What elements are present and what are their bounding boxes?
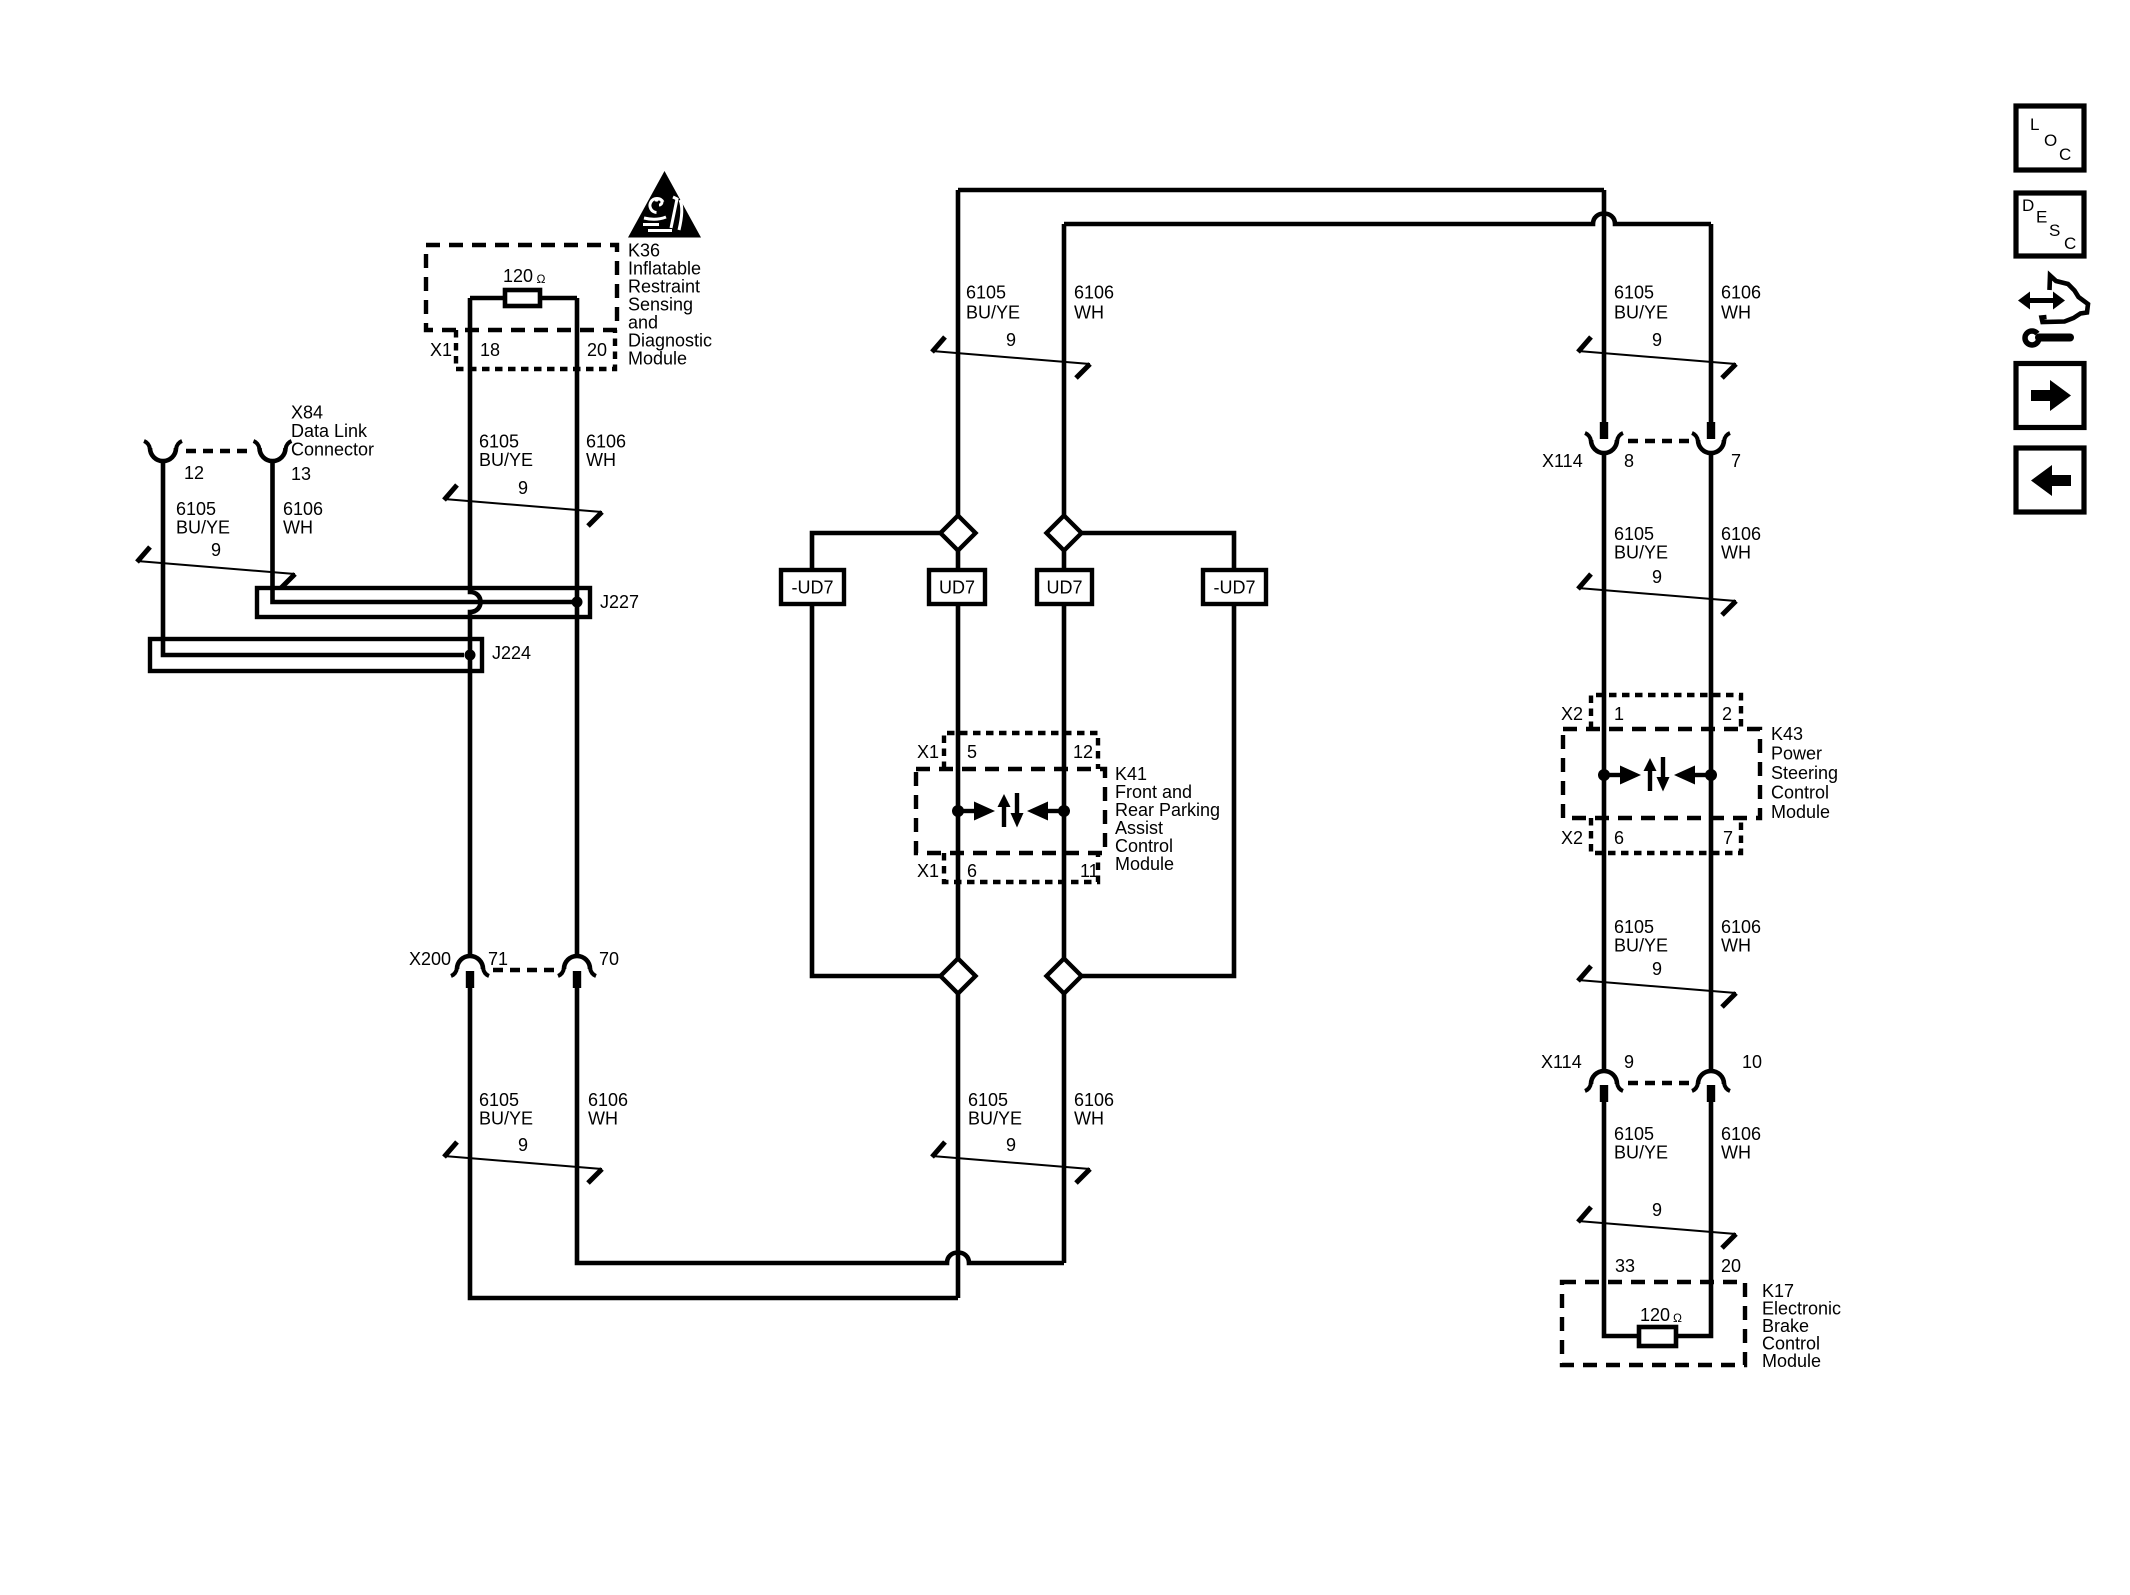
- svg-text:X2: X2: [1561, 704, 1583, 724]
- option diamond top right on 6106: [1047, 516, 1082, 551]
- svg-text:Assist: Assist: [1115, 818, 1163, 838]
- svg-text:BU/YE: BU/YE: [1614, 303, 1668, 323]
- splice pack J227 box: [257, 588, 590, 617]
- svg-text:Rear Parking: Rear Parking: [1115, 800, 1220, 820]
- wire X84 pin13 to J227: [273, 463, 573, 602]
- twisted pair slash middle top: [932, 337, 1090, 378]
- svg-text:6105: 6105: [176, 499, 216, 519]
- svg-text:6106: 6106: [1721, 1124, 1761, 1144]
- X114 male terminal 8: [1600, 422, 1608, 439]
- svg-text:9: 9: [518, 1135, 528, 1155]
- svg-text:9: 9: [518, 478, 528, 498]
- svg-text:O: O: [2044, 131, 2057, 150]
- svg-text:9: 9: [1652, 959, 1662, 979]
- svg-text:X1: X1: [430, 340, 452, 360]
- wire 6106 right vertical upper: [1709, 224, 1714, 424]
- svg-text:6105: 6105: [479, 1090, 519, 1110]
- X114 female terminal 9: [1591, 1071, 1617, 1084]
- previous page navigation box (left arrow): [2016, 448, 2084, 512]
- svg-text:9: 9: [1652, 330, 1662, 350]
- svg-text:WH: WH: [1721, 303, 1751, 323]
- svg-text:6106: 6106: [588, 1090, 628, 1110]
- svg-text:Restraint: Restraint: [628, 277, 700, 297]
- svg-text:9: 9: [1652, 1200, 1662, 1220]
- svg-text:6: 6: [1614, 828, 1624, 848]
- svg-text:C: C: [2059, 145, 2071, 164]
- svg-text:6106: 6106: [1721, 917, 1761, 937]
- option diamond top left on 6105: [941, 516, 976, 551]
- svg-text:6: 6: [967, 861, 977, 881]
- twisted pair slash middle bottom: [932, 1142, 1090, 1183]
- svg-text:6105: 6105: [1614, 524, 1654, 544]
- K43 internal node dot on 6106: [1705, 769, 1717, 781]
- svg-text:Data Link: Data Link: [291, 421, 368, 441]
- svg-text:9: 9: [1006, 1135, 1016, 1155]
- svg-text:C: C: [2064, 234, 2076, 253]
- svg-text:18: 18: [480, 340, 500, 360]
- svg-text:X1: X1: [917, 742, 939, 762]
- svg-text:E: E: [2036, 208, 2047, 227]
- svg-text:-UD7: -UD7: [1213, 578, 1255, 598]
- wire -UD7 left branch: [812, 533, 941, 976]
- svg-text:BU/YE: BU/YE: [176, 518, 230, 538]
- wire 6105 BU/YE vertical from K36 pin 18 (with hop over J227 splice wire): [470, 298, 481, 957]
- wire 6105 middle vertical (CAN High trunk): [956, 190, 961, 1298]
- svg-text:WH: WH: [1721, 1143, 1751, 1163]
- svg-text:Module: Module: [1115, 854, 1174, 874]
- svg-text:Steering: Steering: [1771, 763, 1838, 783]
- option label box UD7 (right centre): [1037, 570, 1092, 604]
- svg-text:WH: WH: [1721, 936, 1751, 956]
- svg-text:120: 120: [503, 266, 533, 286]
- svg-text:1: 1: [1614, 704, 1624, 724]
- svg-text:and: and: [628, 313, 658, 333]
- option label box -UD7 (left): [781, 570, 844, 604]
- svg-text:WH: WH: [588, 1109, 618, 1129]
- svg-text:6106: 6106: [586, 432, 626, 452]
- splice J224 junction dot on 6105: [465, 650, 476, 661]
- svg-text:6106: 6106: [1721, 283, 1761, 303]
- twisted pair slash below X84: [137, 547, 295, 588]
- svg-text:WH: WH: [283, 518, 313, 538]
- svg-text:Module: Module: [1762, 1351, 1821, 1371]
- K41 internal node dot on 6106: [1058, 805, 1070, 817]
- X114 male terminal 9: [1600, 1085, 1608, 1102]
- X114 top dashed connector line: [1628, 439, 1693, 444]
- svg-text:20: 20: [1721, 1256, 1741, 1276]
- svg-text:9: 9: [1652, 567, 1662, 587]
- svg-text:J224: J224: [492, 643, 531, 663]
- svg-text:33: 33: [1615, 1256, 1635, 1276]
- svg-text:120: 120: [1640, 1305, 1670, 1325]
- svg-text:WH: WH: [586, 450, 616, 470]
- repair instructions icon: wrench: [2025, 331, 2039, 345]
- wire 6106 WH vertical from K36 pin 20: [575, 298, 580, 957]
- wire 6105 into K17: [1604, 1101, 1639, 1336]
- svg-text:7: 7: [1731, 451, 1741, 471]
- svg-text:BU/YE: BU/YE: [968, 1109, 1022, 1129]
- svg-text:20: 20: [587, 340, 607, 360]
- K43 module dashed box: [1563, 729, 1760, 818]
- svg-text:Connector: Connector: [291, 440, 374, 460]
- svg-text:WH: WH: [1721, 543, 1751, 563]
- X84 female terminal pin 13: [260, 448, 286, 461]
- svg-text:K43: K43: [1771, 724, 1803, 744]
- svg-text:10: 10: [1742, 1052, 1762, 1072]
- svg-text:Sensing: Sensing: [628, 295, 693, 315]
- svg-text:WH: WH: [1074, 303, 1104, 323]
- wire 6106 top horizontal (with hop over 6105 vertical): [1064, 214, 1711, 225]
- K43 left-pointing arrow: [1695, 773, 1711, 777]
- X200 female terminal 71: [457, 956, 483, 969]
- svg-text:6105: 6105: [968, 1090, 1008, 1110]
- X114 female terminal 10: [1698, 1071, 1724, 1084]
- svg-text:X1: X1: [917, 861, 939, 881]
- svg-text:BU/YE: BU/YE: [1614, 543, 1668, 563]
- K41 right-pointing arrow: [958, 809, 974, 813]
- svg-text:-UD7: -UD7: [791, 578, 833, 598]
- svg-text:6106: 6106: [283, 499, 323, 519]
- twisted pair slash right middle: [1578, 574, 1736, 615]
- LOC navigation box: [2016, 106, 2084, 170]
- svg-text:13: 13: [291, 464, 311, 484]
- wire 6105 below X200 to bottom corner: [470, 988, 958, 1298]
- svg-text:9: 9: [211, 540, 221, 560]
- K41 internal node dot on 6105: [952, 805, 964, 817]
- svg-text:Ω: Ω: [537, 272, 546, 286]
- svg-text:L: L: [2030, 115, 2039, 134]
- svg-text:X84: X84: [291, 403, 323, 423]
- K41 up arrow: [1002, 805, 1006, 827]
- svg-text:Inflatable: Inflatable: [628, 259, 701, 279]
- svg-text:D: D: [2022, 196, 2034, 215]
- wire X84 pin12 to J224: [163, 463, 464, 655]
- wire 6105 X114 to K43 to X114: [1602, 453, 1607, 1071]
- svg-text:6106: 6106: [1074, 283, 1114, 303]
- airbag pictogram inside triangle: [643, 197, 682, 231]
- svg-text:Front and: Front and: [1115, 782, 1192, 802]
- wire K36 internal resistor jumper: [470, 296, 577, 301]
- wire 6106 middle vertical: [1062, 224, 1067, 1263]
- svg-text:Control: Control: [1771, 783, 1829, 803]
- svg-text:11: 11: [1080, 861, 1099, 881]
- K43 right-pointing arrow: [1604, 773, 1620, 777]
- wire -UD7 right branch: [1081, 533, 1234, 976]
- wire 6106 below X200 to bottom corner (with hop over 6105): [577, 988, 1064, 1263]
- svg-text:6106: 6106: [1721, 524, 1761, 544]
- svg-text:BU/YE: BU/YE: [966, 303, 1020, 323]
- svg-text:Diagnostic: Diagnostic: [628, 331, 712, 351]
- svg-text:UD7: UD7: [1046, 578, 1082, 598]
- svg-text:8: 8: [1624, 451, 1634, 471]
- X200 male terminal 70: [573, 971, 581, 988]
- twisted pair slash right top: [1578, 337, 1736, 378]
- svg-text:J227: J227: [600, 592, 639, 612]
- svg-text:BU/YE: BU/YE: [479, 1109, 533, 1129]
- K41 left-pointing arrow: [1048, 809, 1064, 813]
- svg-text:Ω: Ω: [1673, 1311, 1682, 1325]
- next page navigation box (right arrow): [2016, 364, 2084, 428]
- K36 connector X1 dashed box: [456, 330, 615, 369]
- K36 module dashed box: [426, 245, 617, 330]
- twisted pair slash right bottom: [1578, 1207, 1736, 1248]
- svg-text:S: S: [2049, 221, 2060, 240]
- wire 6105 right vertical upper: [1602, 190, 1607, 424]
- wire 6106 into K17: [1676, 1101, 1711, 1336]
- svg-text:9: 9: [1624, 1052, 1634, 1072]
- svg-text:71: 71: [488, 949, 508, 969]
- svg-text:12: 12: [184, 463, 204, 483]
- K17 module dashed box: [1562, 1282, 1745, 1365]
- resistor 120 ohm in K17: [1639, 1327, 1676, 1346]
- SIR warning triangle: [628, 171, 701, 238]
- option label box -UD7 (right): [1203, 570, 1266, 604]
- X200 male terminal 71: [466, 971, 474, 988]
- wire 6105 top horizontal: [958, 188, 1604, 193]
- twisted pair slash right lower: [1578, 966, 1736, 1007]
- option diamond bottom left on 6105: [941, 959, 976, 994]
- svg-text:Power: Power: [1771, 744, 1822, 764]
- svg-text:6105: 6105: [479, 432, 519, 452]
- svg-text:6106: 6106: [1074, 1090, 1114, 1110]
- svg-text:6105: 6105: [1614, 1124, 1654, 1144]
- twisted pair slash left bottom: [444, 1142, 602, 1183]
- svg-text:BU/YE: BU/YE: [479, 450, 533, 470]
- splice pack J224 box: [150, 639, 482, 671]
- X114 bottom dashed connector line: [1628, 1081, 1693, 1086]
- K41 down arrow: [1015, 793, 1019, 815]
- wire 6106 X114 to K43 to X114: [1709, 453, 1714, 1071]
- splice J227 junction dot on 6106: [572, 597, 583, 608]
- svg-text:7: 7: [1723, 828, 1733, 848]
- K43 connector X2 top dashed box: [1591, 695, 1741, 729]
- svg-text:WH: WH: [1074, 1109, 1104, 1129]
- svg-text:BU/YE: BU/YE: [1614, 1143, 1668, 1163]
- option label box UD7 (left centre): [929, 570, 985, 604]
- X114 female terminal 7: [1698, 440, 1724, 453]
- K41 module dashed box: [916, 769, 1105, 853]
- K43 down arrow: [1661, 757, 1665, 779]
- repair instructions icon: double arrow: [2029, 298, 2055, 303]
- twisted pair slash below K36: [444, 485, 602, 526]
- svg-text:6105: 6105: [966, 283, 1006, 303]
- svg-text:6105: 6105: [1614, 283, 1654, 303]
- svg-text:BU/YE: BU/YE: [1614, 936, 1668, 956]
- svg-text:12: 12: [1073, 742, 1093, 762]
- K43 internal node dot on 6105: [1598, 769, 1610, 781]
- svg-text:5: 5: [967, 742, 977, 762]
- X200 female terminal 70: [564, 956, 590, 969]
- svg-text:X200: X200: [409, 949, 451, 969]
- svg-text:2: 2: [1722, 704, 1732, 724]
- K41 connector X1 bottom dashed box: [944, 853, 1098, 882]
- repair instructions icon: vehicle outline: [2042, 276, 2089, 323]
- X114 female terminal 8: [1591, 440, 1617, 453]
- svg-text:UD7: UD7: [939, 578, 975, 598]
- svg-text:Control: Control: [1115, 836, 1173, 856]
- svg-text:Module: Module: [1771, 802, 1830, 822]
- svg-text:K41: K41: [1115, 764, 1147, 784]
- X114 male terminal 7: [1707, 422, 1715, 439]
- svg-text:X114: X114: [1541, 1052, 1582, 1072]
- svg-text:X114: X114: [1542, 451, 1583, 471]
- X84 dashed connector line: [186, 449, 252, 454]
- option diamond bottom right on 6106: [1047, 959, 1082, 994]
- svg-text:X2: X2: [1561, 828, 1583, 848]
- DESC navigation box: [2016, 193, 2084, 256]
- X200 dashed connector line: [493, 968, 554, 973]
- svg-text:K36: K36: [628, 241, 660, 261]
- X84 female terminal pin 12: [150, 448, 176, 461]
- resistor 120 ohm in K36: [505, 290, 540, 306]
- svg-text:70: 70: [599, 949, 619, 969]
- K41 connector X1 top dashed box: [944, 733, 1098, 769]
- X114 male terminal 10: [1707, 1085, 1715, 1102]
- svg-text:Module: Module: [628, 349, 687, 369]
- K43 connector X2 bottom dashed box: [1591, 818, 1741, 853]
- K43 up arrow: [1648, 769, 1652, 791]
- svg-text:9: 9: [1006, 330, 1016, 350]
- svg-text:6105: 6105: [1614, 917, 1654, 937]
